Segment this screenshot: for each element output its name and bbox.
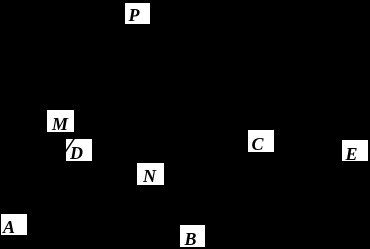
point label M — [47, 110, 74, 132]
point label P — [125, 3, 151, 25]
point label A — [1, 214, 27, 235]
point label D — [66, 139, 92, 161]
point label B — [180, 225, 205, 247]
point label C — [248, 130, 274, 152]
point label N — [137, 163, 164, 185]
point label E — [342, 140, 368, 161]
